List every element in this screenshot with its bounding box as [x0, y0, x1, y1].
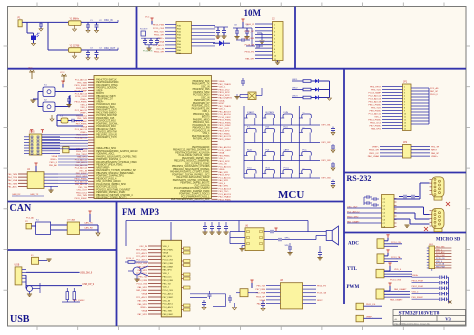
svg-text:PC3_ADC13: PC3_ADC13	[368, 98, 381, 101]
svg-text:PC15_OS: PC15_OS	[436, 258, 445, 260]
svg-text:PA9/USART1_TX: PA9/USART1_TX	[192, 83, 210, 86]
svg-text:OSC_IN: OSC_IN	[104, 20, 113, 22]
svg-text:PC5_ADC15: PC5_ADC15	[219, 165, 232, 168]
svg-text:PE15_FSMC: PE15_FSMC	[75, 85, 88, 87]
svg-text:PC0_ADC1: PC0_ADC1	[163, 303, 174, 306]
svg-text:PC1_ADC11: PC1_ADC11	[369, 113, 382, 116]
svg-text:PB0_ADC18: PB0_ADC18	[219, 146, 232, 149]
svg-text:PE5/TRACED2/FSMC_A21/VSSA: PE5/TRACED2/FSMC_A21/VSSA	[175, 151, 210, 154]
svg-text:10M: 10M	[244, 8, 262, 18]
svg-text:---: ---	[302, 126, 304, 128]
svg-text:PE9_FSMC: PE9_FSMC	[219, 155, 231, 157]
svg-text:PC13_TA: PC13_TA	[391, 256, 401, 259]
svg-text:PE13_FSMC: PE13_FSMC	[219, 199, 232, 201]
svg-text:PB11/I2C2_SDA/USART3_RX/PE11: PB11/I2C2_SDA/USART3_RX/PE11	[173, 168, 210, 171]
svg-text:PE4_TRST: PE4_TRST	[76, 154, 88, 156]
svg-text:PB13/SPI2_SCK/USART3_CTS/NRS: PB13/SPI2_SCK/USART3_CTS/NRS	[172, 165, 210, 168]
svg-text:KEY_IN3: KEY_IN3	[322, 160, 332, 162]
svg-text:PA2_USAR: PA2_USAR	[136, 289, 147, 292]
svg-text:PA7_SPI1: PA7_SPI1	[138, 313, 148, 316]
svg-text:PE3_TDO: PE3_TDO	[219, 191, 229, 193]
svg-text:PA5_SPI1: PA5_SPI1	[163, 269, 173, 272]
svg-text:PE2_TRACK: PE2_TRACK	[219, 83, 232, 86]
svg-text:PE7_FSMC: PE7_FSMC	[76, 124, 88, 126]
svg-text:PC6/I2S2_MCK/TIM8_CH1/NRST: PC6/I2S2_MCK/TIM8_CH1/NRST	[96, 189, 131, 191]
svg-text:11: 11	[404, 117, 406, 119]
svg-text:PB10/I2C2_SCL: PB10/I2C2_SCL	[193, 122, 210, 124]
svg-text:KEY_IN1: KEY_IN1	[322, 125, 332, 127]
svg-text:PC14-OSC32_IN/PB13_SPI2: PC14-OSC32_IN/PB13_SPI2	[96, 184, 126, 186]
svg-text:PC15_OS3: PC15_OS3	[153, 28, 165, 30]
svg-text:PE11_FSMC: PE11_FSMC	[368, 105, 381, 107]
svg-text:PA3_USART: PA3_USART	[390, 299, 403, 302]
svg-text:PA1_ADC1: PA1_ADC1	[76, 161, 88, 164]
svg-text:PC4_ADC: PC4_ADC	[436, 251, 445, 254]
svg-text:Y1 8MHz: Y1 8MHz	[70, 19, 80, 21]
svg-text:PE7_FSMC: PE7_FSMC	[369, 126, 381, 128]
svg-text:C5: C5	[383, 216, 385, 218]
svg-text:PD0/FSMC_D2/CAN_: PD0/FSMC_D2/CAN_	[96, 122, 119, 125]
svg-text:VDD_4: VDD_4	[394, 269, 402, 271]
svg-text:PE2_TRACK: PE2_TRACK	[219, 196, 232, 199]
svg-text:PA2/USART2_TX/TIM5_CH3/PB12_SP: PA2/USART2_TX/TIM5_CH3/PB12_SP	[96, 169, 136, 172]
svg-text:OSC_IN: OSC_IN	[79, 170, 87, 172]
svg-text:CAN_RX: CAN_RX	[12, 193, 21, 196]
svg-text:PD10/FSMC_D15: PD10/FSMC_D15	[96, 118, 115, 120]
svg-text:PC14_OS3: PC14_OS3	[390, 280, 402, 282]
svg-text:VDD_1: VDD_1	[202, 111, 210, 113]
svg-text:PD9/FSMC_D14/PE8_FSMC: PD9/FSMC_D14/PE8_FSMC	[180, 191, 210, 193]
svg-text:PC14_OS3: PC14_OS3	[136, 283, 147, 285]
svg-text:PE6_TMS: PE6_TMS	[8, 174, 18, 176]
svg-text:PB11_I2C2: PB11_I2C2	[370, 123, 382, 125]
svg-text:CAN_TX: CAN_TX	[30, 193, 39, 196]
svg-text:PC13_TA: PC13_TA	[317, 292, 326, 295]
svg-text:PC13_TAMP: PC13_TAMP	[368, 92, 381, 95]
svg-text:NRST: NRST	[317, 300, 323, 302]
svg-text:VREF+: VREF+	[80, 113, 88, 115]
svg-text:C3: C3	[383, 209, 385, 211]
svg-text:C1: C1	[383, 202, 385, 204]
svg-text:9: 9	[274, 52, 275, 54]
svg-text:MCU: MCU	[278, 189, 304, 201]
svg-text:PC0_ADC10: PC0_ADC10	[219, 113, 232, 116]
svg-text:VDDA/PA1_ADC1: VDDA/PA1_ADC1	[96, 153, 115, 156]
svg-text:PA6_SPI1: PA6_SPI1	[138, 269, 148, 272]
svg-text:PC14_OS: PC14_OS	[143, 51, 153, 53]
svg-text:PB12/SPI2_NSS/I2C2_SMBAI/VREF-: PB12/SPI2_NSS/I2C2_SMBAI/VREF-	[96, 172, 134, 175]
svg-text:Rote: Rote	[266, 166, 271, 169]
svg-text:VSS_4: VSS_4	[80, 104, 87, 106]
svg-text:PE5_TDI: PE5_TDI	[78, 187, 87, 189]
svg-text:PE13_FSM: PE13_FSM	[153, 25, 164, 27]
svg-text:NRST: NRST	[219, 103, 226, 105]
svg-text:1: 1	[404, 87, 405, 89]
svg-text:OSC_OUT: OSC_OUT	[347, 206, 358, 208]
svg-text:PC2_ADC12: PC2_ADC12	[368, 95, 381, 98]
svg-text:PB10_I2C2: PB10_I2C2	[219, 89, 231, 91]
svg-text:PA8/USART1_CK/TI: PA8/USART1_CK/TI	[96, 109, 117, 112]
svg-text:PA2_USART: PA2_USART	[347, 220, 360, 223]
svg-text:PE6_TMS: PE6_TMS	[77, 195, 87, 197]
svg-text:PE4_TRS: PE4_TRS	[8, 177, 18, 179]
svg-text:PC14-OSC32_IN/PC13_TAMP: PC14-OSC32_IN/PC13_TAMP	[179, 154, 210, 157]
svg-text:East: East	[284, 125, 289, 128]
svg-text:OSC_IN: OSC_IN	[201, 97, 210, 99]
svg-text:PE10/FSMC_D7: PE10/FSMC_D7	[193, 103, 210, 105]
svg-text:PA14/JTCK-SWCLK/PA0_WKUP: PA14/JTCK-SWCLK/PA0_WKUP	[176, 176, 210, 179]
svg-text:PC2_AD: PC2_AD	[26, 217, 35, 220]
svg-text:PC7/I2S3_MCK/TIM: PC7/I2S3_MCK/TIM	[96, 115, 117, 117]
svg-text:VDD_1: VDD_1	[219, 109, 227, 111]
svg-text:PE11_FSMC: PE11_FSMC	[219, 125, 232, 127]
svg-text:PC5_ADC1: PC5_ADC1	[136, 255, 148, 258]
svg-text:VSSA: VSSA	[141, 310, 147, 313]
svg-text:VCC: VCC	[60, 72, 65, 74]
svg-text:FUN: FUN	[284, 112, 289, 114]
svg-text:VDDA: VDDA	[219, 99, 226, 102]
svg-text:PB13_SP: PB13_SP	[256, 296, 266, 298]
svg-text:11: 11	[274, 59, 276, 61]
svg-text:PE4/TRACED1/FSMC: PE4/TRACED1/FSMC	[96, 81, 119, 84]
svg-text:OSC_IN/VSSA: OSC_IN/VSSA	[194, 184, 210, 187]
svg-text:VDD_4: VDD_4	[436, 261, 442, 263]
svg-text:PA1/USART2_RTS/A: PA1/USART2_RTS/A	[96, 84, 118, 87]
svg-text:VDD_1: VDD_1	[163, 246, 170, 248]
svg-text:VREF+: VREF+	[50, 159, 58, 161]
svg-text:VREF+: VREF+	[140, 307, 148, 309]
svg-text:PA3_USAR: PA3_USAR	[163, 265, 174, 268]
svg-text:PC13_TA: PC13_TA	[245, 44, 255, 47]
svg-text:C6: C6	[383, 219, 385, 221]
svg-text:PB11_I2C: PB11_I2C	[369, 153, 379, 155]
svg-text:PC14_OS3: PC14_OS3	[163, 260, 174, 262]
svg-text:9: 9	[404, 111, 405, 113]
svg-text:C8: C8	[383, 226, 385, 228]
svg-text:PB12_SP: PB12_SP	[245, 31, 255, 33]
svg-text:2: 2	[274, 28, 275, 30]
svg-text:ROTATE: ROTATE	[266, 111, 275, 114]
svg-text:PE6_TMS: PE6_TMS	[163, 311, 173, 313]
svg-text:PC0/ADC123_IN10: PC0/ADC123_IN10	[96, 125, 116, 128]
svg-text:PA5_SPI1: PA5_SPI1	[371, 128, 382, 131]
svg-text:PA9/USART1_TX/TI: PA9/USART1_TX/TI	[96, 136, 117, 139]
svg-text:PB1/ADC12_IN9/TI: PB1/ADC12_IN9/TI	[96, 95, 116, 98]
svg-text:PA6_SPI1: PA6_SPI1	[219, 171, 230, 174]
svg-text:VDD_1: VDD_1	[163, 287, 170, 289]
svg-text:3: 3	[404, 93, 405, 95]
svg-text:CAN_RX: CAN_RX	[84, 227, 93, 230]
svg-text:PA0-WKUP/USART2_CTS/PE14_FSMC: PA0-WKUP/USART2_CTS/PE14_FSMC	[96, 161, 137, 164]
svg-text:5: 5	[274, 38, 275, 40]
svg-text:PB13_SPI: PB13_SPI	[369, 150, 379, 152]
svg-text:PC14_OS3: PC14_OS3	[136, 263, 147, 265]
svg-text:Fall: Fall	[266, 149, 270, 151]
svg-text:PC14_OS: PC14_OS	[391, 242, 401, 244]
svg-text:PB12_SPI: PB12_SPI	[154, 52, 164, 54]
svg-text:PC13_TA: PC13_TA	[436, 263, 445, 266]
svg-text:PA3_USART: PA3_USART	[394, 288, 407, 291]
svg-text:PE5_TDI: PE5_TDI	[163, 283, 172, 285]
svg-text:PE12/FSMC_D9/PE6_TMS: PE12/FSMC_D9/PE6_TMS	[182, 158, 210, 160]
svg-text:C4: C4	[383, 212, 385, 214]
svg-text:PC3_ADC13: PC3_ADC13	[219, 193, 232, 196]
svg-text:PB2/BOOT1/VSS_4: PB2/BOOT1/VSS_4	[96, 178, 117, 180]
svg-text:OSC_OUT/PE15_FSMC: OSC_OUT/PE15_FSMC	[185, 163, 210, 165]
svg-text:PE5_TDI: PE5_TDI	[139, 277, 148, 279]
svg-text:PB12/SPI2_NSS/I2C2_SMBAI/PB1: PB12/SPI2_NSS/I2C2_SMBAI/PB1	[174, 160, 210, 163]
svg-text:PC1_ADC1: PC1_ADC1	[163, 293, 174, 296]
svg-text:R1 49.9: R1 49.9	[140, 29, 148, 31]
svg-text:5: 5	[404, 99, 405, 101]
svg-text:PA13/JTMS-SWDIO: PA13/JTMS-SWDIO	[96, 111, 116, 114]
svg-text:NRST/VREF-: NRST/VREF-	[96, 167, 110, 169]
svg-text:PB12_SPI: PB12_SPI	[154, 35, 164, 37]
svg-text:PA4_SPI1: PA4_SPI1	[138, 286, 148, 289]
svg-text:VREF-: VREF-	[96, 90, 103, 92]
svg-text:VSSA: VSSA	[158, 41, 164, 44]
svg-text:PA6_SPI: PA6_SPI	[245, 58, 254, 61]
svg-text:PB1_ADC: PB1_ADC	[8, 185, 18, 188]
svg-text:PA5/SPI1_SCK/DAC: PA5/SPI1_SCK/DAC	[96, 87, 117, 90]
svg-text:VREF+: VREF+	[96, 101, 104, 103]
svg-text:PE7_FSM: PE7_FSM	[436, 255, 445, 257]
svg-text:PB10_I2C: PB10_I2C	[163, 277, 173, 279]
svg-text:C2: C2	[383, 205, 385, 207]
svg-text:PA7_SP: PA7_SP	[430, 90, 439, 93]
svg-text:PE9/FSMC_D6/PB2_BOOT1: PE9/FSMC_D6/PB2_BOOT1	[180, 183, 210, 185]
svg-text:PD9/FSMC_D14/PC3_ADC13: PD9/FSMC_D14/PC3_ADC13	[179, 193, 210, 196]
svg-text:PC4_ADC14: PC4_ADC14	[75, 128, 88, 131]
svg-text:PE15_FSM: PE15_FSM	[163, 263, 174, 265]
svg-text:PB13/SPI2_SCK/US: PB13/SPI2_SCK/US	[96, 134, 117, 136]
svg-text:PE10_FS: PE10_FS	[245, 52, 255, 54]
svg-text:PE8_FSMC: PE8_FSMC	[163, 314, 174, 316]
svg-text:PC3_AD: PC3_AD	[430, 87, 439, 90]
svg-text:PA2_USA: PA2_USA	[8, 179, 18, 182]
svg-text:VREF+: VREF+	[80, 99, 88, 101]
svg-text:PC7/I2S3_MCK/: PC7/I2S3_MCK/	[193, 95, 210, 97]
svg-text:PE8_FSM: PE8_FSM	[436, 266, 445, 268]
svg-text:KEY_IN2: KEY_IN2	[322, 142, 332, 144]
svg-text:PC6/I2S2_MCK/TIM: PC6/I2S2_MCK/TIM	[96, 132, 117, 134]
svg-text:VCC: VCC	[145, 17, 150, 19]
svg-text:PC15_OS32: PC15_OS32	[219, 150, 232, 152]
svg-text:BOOT0/PC15_OS32: BOOT0/PC15_OS32	[96, 187, 118, 189]
svg-text:PE10_F: PE10_F	[430, 94, 439, 96]
svg-text:PE13_FSMC: PE13_FSMC	[75, 102, 88, 104]
svg-text:12: 12	[404, 120, 406, 122]
svg-text:PE9_FSMC: PE9_FSMC	[136, 249, 147, 251]
svg-text:VSS_1: VSS_1	[202, 133, 210, 135]
svg-text:PB13/SPI2_SCK: PB13/SPI2_SCK	[193, 81, 210, 83]
svg-text:PA5_SPI1: PA5_SPI1	[163, 255, 173, 258]
svg-text:PE13_FSMC: PE13_FSMC	[219, 122, 232, 124]
svg-text:PE14_FS: PE14_FS	[317, 286, 327, 288]
svg-text:PE2/TRACECK/F: PE2/TRACECK/F	[192, 135, 210, 138]
svg-text:3: 3	[274, 32, 275, 34]
svg-text:4: 4	[274, 35, 275, 37]
svg-text:Time: Time	[247, 167, 253, 169]
svg-text:JP1: JP1	[403, 81, 408, 84]
svg-text:4: 4	[404, 96, 405, 98]
svg-text:PB13_SPI2: PB13_SPI2	[219, 131, 231, 133]
svg-text:PA6_SPI1: PA6_SPI1	[138, 303, 148, 306]
svg-text:VSSA: VSSA	[259, 299, 265, 302]
svg-text:PE13_FSMC: PE13_FSMC	[219, 120, 232, 122]
svg-text:PA4/SPI1_NSS/: PA4/SPI1_NSS/	[193, 91, 209, 94]
svg-text:13: 13	[404, 123, 406, 125]
svg-text:PA5_SPI: PA5_SPI	[257, 303, 266, 306]
svg-text:USB: USB	[10, 314, 30, 325]
svg-text:PE6_TMS: PE6_TMS	[77, 118, 87, 120]
svg-text:VREF-: VREF-	[219, 169, 226, 171]
svg-text:PC1_ADC1: PC1_ADC1	[136, 296, 148, 299]
svg-text:C7: C7	[383, 223, 385, 225]
svg-text:VSSA: VSSA	[51, 155, 57, 158]
svg-text:PE6_TMS: PE6_TMS	[77, 82, 87, 84]
svg-text:PB14_SPI2: PB14_SPI2	[219, 95, 231, 97]
svg-text:KEY_IN4: KEY_IN4	[322, 178, 332, 180]
svg-text:SPK+: SPK+	[285, 238, 291, 240]
svg-text:PC14_OS3: PC14_OS3	[163, 290, 174, 292]
svg-text:2: 2	[404, 90, 405, 92]
svg-text:CAN_TX: CAN_TX	[84, 222, 93, 225]
svg-text:PA3/USART2_RX: PA3/USART2_RX	[192, 107, 210, 110]
svg-text:PE5_TDI: PE5_TDI	[257, 286, 266, 288]
svg-text:PB0_AD: PB0_AD	[49, 164, 57, 167]
svg-text:PE7_FSMC: PE7_FSMC	[219, 133, 231, 135]
svg-text:PB14_SPI2: PB14_SPI2	[76, 151, 88, 153]
svg-text:VSS_4: VSS_4	[219, 183, 226, 185]
svg-text:PE14_FSM: PE14_FSM	[163, 280, 174, 282]
svg-text:File: STM32-103.SchDoc Drawn: File: STM32-103.SchDoc Drawn By:	[395, 322, 431, 325]
svg-text:8: 8	[404, 108, 405, 110]
svg-text:1: 1	[274, 25, 275, 27]
svg-text:PC14_O: PC14_O	[126, 258, 134, 260]
svg-text:PC1_ADC1: PC1_ADC1	[136, 259, 148, 262]
svg-text:BOOT0: BOOT0	[202, 117, 210, 119]
svg-text:U7 CAN: U7 CAN	[67, 219, 75, 222]
svg-text:PB14_SPI2: PB14_SPI2	[76, 88, 88, 90]
svg-text:PC2_ADC12: PC2_ADC12	[347, 210, 360, 213]
svg-text:VSS_4: VSS_4	[80, 107, 87, 109]
svg-text:PE10/FSMC_D7: PE10/FSMC_D7	[96, 99, 113, 101]
svg-text:PE10/FSMC_D7/PB2_BOOT1: PE10/FSMC_D7/PB2_BOOT1	[96, 198, 127, 200]
svg-text:6: 6	[404, 102, 405, 104]
svg-text:PE5/TRACED2/FSMC_A21/PC3_ADC: PE5/TRACED2/FSMC_A21/PC3_ADC	[171, 198, 210, 201]
svg-text:USB_DM_9: USB_DM_9	[80, 273, 93, 275]
svg-text:PE7_FSM: PE7_FSM	[256, 289, 266, 291]
svg-text:PA7_SPI1: PA7_SPI1	[219, 185, 230, 188]
svg-text:PB10_I2C2: PB10_I2C2	[76, 115, 88, 117]
svg-text:PB10_I2C2: PB10_I2C2	[76, 192, 88, 194]
svg-text:VSSA: VSSA	[141, 293, 147, 296]
svg-text:PB13_SPI2: PB13_SPI2	[219, 161, 231, 163]
svg-text:PB2/BOOT1/PE14_FSMC: PB2/BOOT1/PE14_FSMC	[96, 165, 123, 167]
svg-text:PE11_FSMC: PE11_FSMC	[219, 139, 232, 141]
svg-text:PE2_TR: PE2_TR	[431, 147, 440, 149]
svg-text:PC2/ADC123_IN: PC2/ADC123_IN	[192, 124, 209, 127]
svg-text:PC0/ADC123_IN10: PC0/ADC123_IN10	[96, 120, 116, 123]
svg-text:PA7/SPI1_MOSI: PA7/SPI1_MOSI	[193, 138, 210, 141]
svg-text:VREF-: VREF-	[219, 81, 226, 83]
svg-text:PB2_BOOT1: PB2_BOOT1	[219, 136, 232, 138]
svg-text:CAN: CAN	[10, 203, 32, 214]
svg-text:PA4/SPI1_NSS/USART2_CK/PE6_TMS: PA4/SPI1_NSS/USART2_CK/PE6_TMS	[96, 155, 137, 158]
svg-text:OSC_IN: OSC_IN	[156, 48, 165, 50]
svg-text:PE8_FSMC: PE8_FSMC	[369, 111, 381, 113]
svg-text:JTAG: JTAG	[29, 131, 35, 134]
svg-text:OSC_OUT/PB1_ADC19: OSC_OUT/PB1_ADC19	[96, 180, 121, 183]
svg-text:FM MP3: FM MP3	[122, 207, 159, 217]
svg-text:PC2_ADC12: PC2_ADC12	[75, 109, 88, 112]
svg-text:TTL: TTL	[347, 267, 358, 272]
svg-text:Edit: Edit	[266, 125, 270, 128]
svg-text:PE2_TRACK: PE2_TRACK	[219, 105, 232, 108]
svg-text:PE3/TRACED0/F: PE3/TRACED0/F	[192, 146, 210, 149]
svg-text:---: ---	[302, 167, 304, 169]
svg-text:C0: C0	[383, 198, 385, 200]
svg-text:Y2 32768: Y2 32768	[70, 46, 81, 48]
svg-text:PB0/ADC12_IN8/TIM3_CH3/PA0_W: PB0/ADC12_IN8/TIM3_CH3/PA0_W	[173, 149, 210, 152]
svg-text:PE3_TDO: PE3_TDO	[371, 90, 381, 92]
svg-text:PB12/SPI2_NSS: PB12/SPI2_NSS	[193, 89, 210, 91]
svg-text:PE5/TRACED2/FSMC_A21/PC3_ADC13: PE5/TRACED2/FSMC_A21/PC3_ADC13	[96, 150, 138, 153]
svg-text:---: ---	[302, 112, 304, 114]
svg-text:PC0/ADC123_IN: PC0/ADC123_IN	[192, 129, 209, 132]
svg-text:PC0/ADC123_IN10: PC0/ADC123_IN10	[96, 103, 116, 106]
svg-text:7: 7	[274, 45, 275, 47]
svg-text:PC1_ADC11: PC1_ADC11	[75, 79, 88, 82]
svg-text:OSC_OUT: OSC_OUT	[219, 128, 230, 130]
svg-text:8: 8	[274, 49, 275, 51]
svg-text:PE15_F: PE15_F	[49, 162, 57, 164]
svg-text:PE2_TRA: PE2_TRA	[256, 292, 266, 295]
svg-text:PE11_FS: PE11_FS	[366, 304, 376, 306]
svg-text:15: 15	[404, 129, 406, 131]
svg-text:VDD_1: VDD_1	[219, 87, 227, 89]
svg-text:OSC_OUT: OSC_OUT	[104, 48, 116, 50]
svg-text:ADC: ADC	[348, 242, 359, 247]
svg-text:OSC_IN: OSC_IN	[201, 86, 210, 88]
svg-text:PC5_ADC1: PC5_ADC1	[136, 252, 148, 255]
svg-text:USB: USB	[15, 265, 20, 267]
svg-text:PE3_TDO: PE3_TDO	[371, 108, 381, 110]
svg-text:BOOT0: BOOT0	[96, 93, 104, 95]
svg-text:VREF-: VREF-	[366, 316, 373, 318]
svg-text:PA0-WKUP/USART2_CTS/PE7_FSMC: PA0-WKUP/USART2_CTS/PE7_FSMC	[170, 171, 210, 174]
svg-text:PD0/FSMC_D2/CAN_RX/PB11_I2C2: PD0/FSMC_D2/CAN_RX/PB11_I2C2	[172, 173, 210, 176]
svg-text:VREF+: VREF+	[431, 156, 439, 158]
svg-text:STM32F103VET8: STM32F103VET8	[399, 311, 440, 317]
svg-text:PB10_I2: PB10_I2	[246, 24, 255, 26]
svg-text:OSC_OUT: OSC_OUT	[77, 190, 88, 192]
svg-text:PC14_OS32: PC14_OS32	[219, 117, 232, 119]
svg-text:Press: Press	[284, 166, 290, 169]
svg-text:PB1_ADC19: PB1_ADC19	[219, 110, 232, 113]
svg-text:PC13/TAMPER-RTC/VSS_1: PC13/TAMPER-RTC/VSS_1	[181, 195, 210, 198]
svg-text:PD9/FSMC_D14/PA6_SPI1: PD9/FSMC_D14/PA6_SPI1	[96, 175, 124, 178]
svg-text:VDD_1: VDD_1	[436, 249, 442, 251]
svg-text:PC14_OS32: PC14_OS32	[75, 96, 88, 98]
svg-text:PE7_FSM: PE7_FSM	[244, 38, 254, 40]
svg-text:PE7_FSMC: PE7_FSMC	[163, 297, 174, 299]
svg-text:VCC: VCC	[28, 68, 33, 70]
svg-text:PA7_SPI1: PA7_SPI1	[138, 299, 148, 302]
svg-text:VSS_1: VSS_1	[374, 117, 382, 119]
svg-text:VSSA: VSSA	[163, 252, 169, 255]
